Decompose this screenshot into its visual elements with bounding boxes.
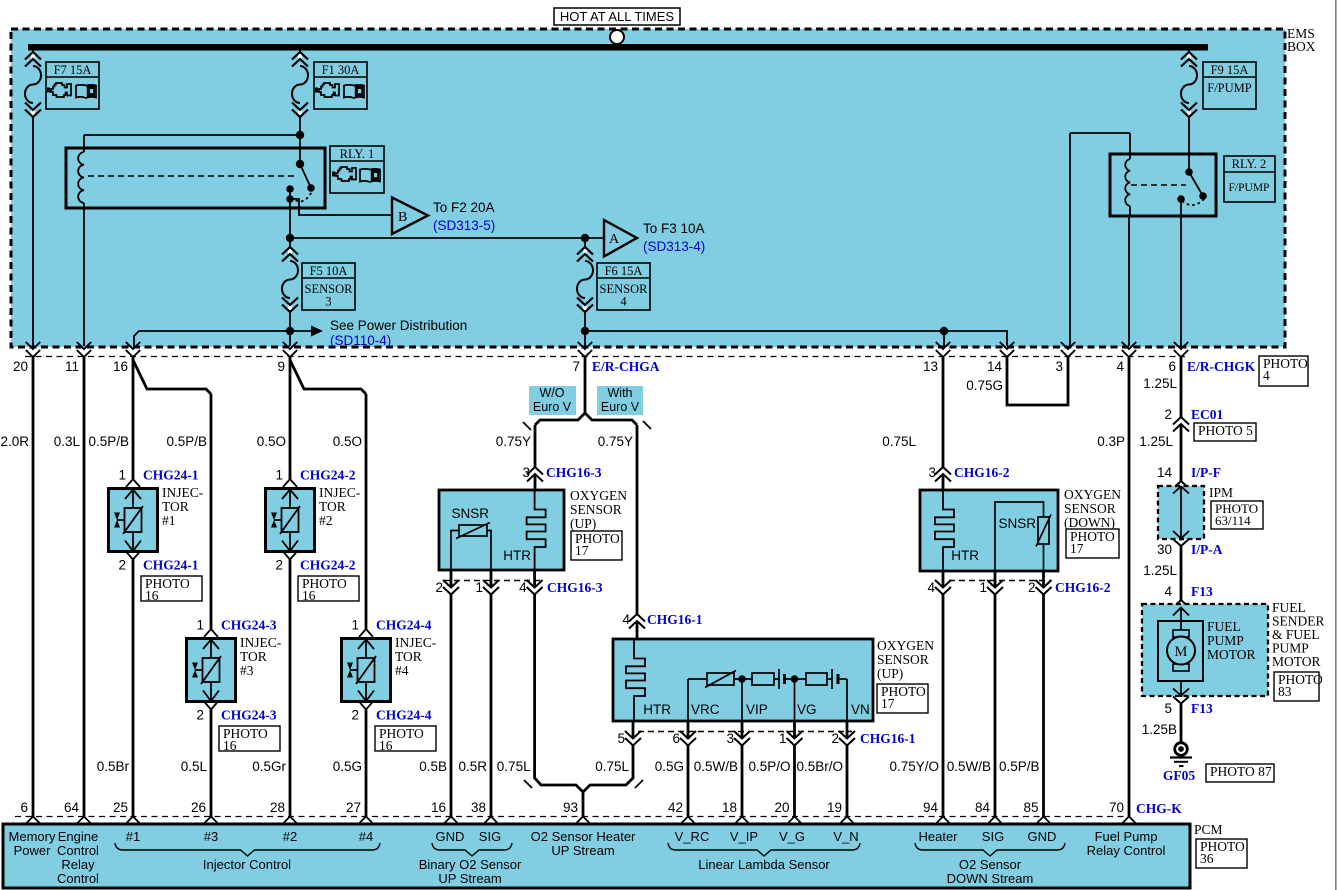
svg-text:20: 20 xyxy=(774,800,789,815)
svg-text:0.5O: 0.5O xyxy=(257,434,286,449)
svg-text:CHG24-4: CHG24-4 xyxy=(376,708,432,723)
svg-text:1.25L: 1.25L xyxy=(1139,434,1173,449)
svg-text:17: 17 xyxy=(575,543,589,558)
svg-text:16: 16 xyxy=(223,738,237,753)
svg-text:O2 Sensor: O2 Sensor xyxy=(959,857,1022,872)
svg-text:Euro V: Euro V xyxy=(601,400,640,414)
svg-text:To F2 20A: To F2 20A xyxy=(433,200,495,215)
svg-text:F/PUMP: F/PUMP xyxy=(1229,182,1270,194)
svg-text:CHG24-2: CHG24-2 xyxy=(300,468,356,483)
svg-text:INJEC-: INJEC- xyxy=(162,485,204,500)
svg-text:(SD313-4): (SD313-4) xyxy=(643,239,705,254)
svg-text:#3: #3 xyxy=(204,829,218,844)
svg-text:OXYGEN: OXYGEN xyxy=(1064,487,1121,502)
svg-text:F6 15A: F6 15A xyxy=(605,264,643,278)
svg-text:0.75Y: 0.75Y xyxy=(496,434,531,449)
svg-text:V_G: V_G xyxy=(779,829,805,844)
svg-text:0.5W/B: 0.5W/B xyxy=(947,759,991,774)
svg-text:INJEC-: INJEC- xyxy=(319,485,361,500)
svg-text:Injector Control: Injector Control xyxy=(203,857,291,872)
svg-text:M: M xyxy=(1175,644,1188,660)
svg-text:#1: #1 xyxy=(126,829,140,844)
svg-text:CHG24-3: CHG24-3 xyxy=(221,708,277,723)
svg-text:0.75G: 0.75G xyxy=(966,378,1003,393)
svg-text:PHOTO 5: PHOTO 5 xyxy=(1198,423,1253,438)
svg-text:42: 42 xyxy=(668,800,683,815)
svg-text:11: 11 xyxy=(65,359,79,374)
svg-text:V_N: V_N xyxy=(833,829,858,844)
svg-text:CHG16-2: CHG16-2 xyxy=(954,465,1010,480)
svg-text:1: 1 xyxy=(475,580,483,595)
svg-text:0.5P/O: 0.5P/O xyxy=(748,759,790,774)
svg-text:TOR: TOR xyxy=(319,499,346,514)
svg-text:19: 19 xyxy=(827,800,842,815)
svg-text:V_IP: V_IP xyxy=(730,829,758,844)
svg-text:0.5W/B: 0.5W/B xyxy=(694,759,738,774)
svg-text:(UP): (UP) xyxy=(877,666,903,681)
svg-text:3: 3 xyxy=(726,731,734,746)
svg-text:(UP): (UP) xyxy=(570,516,596,531)
svg-text:3: 3 xyxy=(1055,359,1063,374)
svg-text:F13: F13 xyxy=(1191,584,1213,599)
svg-text:16: 16 xyxy=(113,359,128,374)
svg-text:2: 2 xyxy=(831,731,839,746)
svg-text:HOT AT ALL TIMES: HOT AT ALL TIMES xyxy=(560,9,674,24)
svg-text:BOX: BOX xyxy=(1287,39,1316,54)
svg-text:3: 3 xyxy=(325,295,331,309)
svg-text:Relay Control: Relay Control xyxy=(1087,843,1166,858)
svg-text:VIP: VIP xyxy=(746,702,768,717)
svg-text:13: 13 xyxy=(923,359,938,374)
svg-text:0.75Y/O: 0.75Y/O xyxy=(889,759,939,774)
svg-text:14: 14 xyxy=(1157,465,1173,480)
svg-text:0.75Y: 0.75Y xyxy=(598,434,633,449)
svg-text:Power: Power xyxy=(14,843,52,858)
svg-text:#4: #4 xyxy=(359,829,373,844)
svg-text:#1: #1 xyxy=(162,513,176,528)
svg-text:2: 2 xyxy=(118,558,126,573)
svg-text:F1 30A: F1 30A xyxy=(322,63,360,77)
svg-text:17: 17 xyxy=(881,696,895,711)
svg-text:TOR: TOR xyxy=(240,649,267,664)
svg-text:38: 38 xyxy=(471,800,486,815)
svg-text:F7 15A: F7 15A xyxy=(54,63,92,77)
svg-text:25: 25 xyxy=(113,800,128,815)
svg-text:With: With xyxy=(608,386,633,400)
svg-text:#3: #3 xyxy=(240,663,254,678)
svg-text:CHG24-1: CHG24-1 xyxy=(143,468,199,483)
svg-text:SENSOR: SENSOR xyxy=(1064,501,1116,516)
svg-text:5: 5 xyxy=(1164,701,1172,716)
svg-text:OXYGEN: OXYGEN xyxy=(877,638,934,653)
svg-text:Binary O2 Sensor: Binary O2 Sensor xyxy=(419,857,522,872)
svg-text:0.5Br/O: 0.5Br/O xyxy=(796,759,843,774)
svg-text:0.5P/B: 0.5P/B xyxy=(166,434,207,449)
svg-text:0.5R: 0.5R xyxy=(458,759,487,774)
svg-text:1: 1 xyxy=(979,580,987,595)
svg-text:0.5P/B: 0.5P/B xyxy=(88,434,129,449)
svg-text:4: 4 xyxy=(622,612,630,627)
svg-text:0.5L: 0.5L xyxy=(181,759,208,774)
svg-text:93: 93 xyxy=(563,800,578,815)
svg-text:18: 18 xyxy=(722,800,737,815)
svg-text:SENSOR: SENSOR xyxy=(570,502,622,517)
svg-text:VG: VG xyxy=(797,702,817,717)
svg-text:1: 1 xyxy=(275,468,283,483)
svg-text:F5 10A: F5 10A xyxy=(310,264,348,278)
svg-text:V_RC: V_RC xyxy=(675,829,710,844)
svg-text:HTR: HTR xyxy=(951,548,979,563)
svg-text:#2: #2 xyxy=(319,513,333,528)
svg-text:7: 7 xyxy=(572,359,580,374)
svg-text:RLY. 2: RLY. 2 xyxy=(1232,157,1267,171)
svg-text:CHG16-3: CHG16-3 xyxy=(547,580,603,595)
svg-text:0.5G: 0.5G xyxy=(333,759,362,774)
svg-text:85: 85 xyxy=(1023,800,1038,815)
svg-text:4: 4 xyxy=(1116,359,1124,374)
svg-text:5: 5 xyxy=(617,731,625,746)
svg-text:2: 2 xyxy=(351,708,359,723)
svg-text:HTR: HTR xyxy=(503,548,531,563)
svg-text:0.3P: 0.3P xyxy=(1097,434,1125,449)
svg-text:Relay: Relay xyxy=(61,857,95,872)
svg-text:9: 9 xyxy=(277,359,285,374)
svg-text:RLY. 1: RLY. 1 xyxy=(340,147,375,161)
svg-text:(SD313-5): (SD313-5) xyxy=(433,218,495,233)
svg-text:(SD110-4): (SD110-4) xyxy=(330,333,391,348)
svg-text:INJEC-: INJEC- xyxy=(395,635,437,650)
svg-text:0.75L: 0.75L xyxy=(497,759,531,774)
svg-text:GF05: GF05 xyxy=(1163,768,1195,783)
svg-text:CHG16-3: CHG16-3 xyxy=(546,465,602,480)
svg-text:SIG: SIG xyxy=(479,829,501,844)
svg-text:CHG-K: CHG-K xyxy=(1136,801,1182,816)
svg-text:3: 3 xyxy=(522,465,530,480)
svg-text:I/P-F: I/P-F xyxy=(1191,465,1221,480)
svg-text:1.25L: 1.25L xyxy=(1143,376,1177,391)
svg-text:Fuel Pump: Fuel Pump xyxy=(1095,829,1158,844)
svg-text:64: 64 xyxy=(64,800,80,815)
svg-text:0.3L: 0.3L xyxy=(54,434,81,449)
svg-text:PHOTO 87: PHOTO 87 xyxy=(1210,764,1272,779)
svg-text:16: 16 xyxy=(431,800,446,815)
svg-text:VRC: VRC xyxy=(691,702,720,717)
svg-text:0.5B: 0.5B xyxy=(419,759,447,774)
svg-text:6: 6 xyxy=(672,731,680,746)
svg-text:26: 26 xyxy=(191,800,206,815)
svg-text:0.75L: 0.75L xyxy=(595,759,629,774)
svg-text:2: 2 xyxy=(275,558,283,573)
svg-text:W/O: W/O xyxy=(540,386,565,400)
svg-text:CHG24-1: CHG24-1 xyxy=(143,558,199,573)
svg-text:F13: F13 xyxy=(1191,701,1213,716)
svg-text:I/P-A: I/P-A xyxy=(1191,542,1223,557)
svg-text:2: 2 xyxy=(196,708,204,723)
svg-text:30: 30 xyxy=(1157,542,1172,557)
svg-text:PCM: PCM xyxy=(1194,822,1223,837)
svg-text:HTR: HTR xyxy=(643,702,671,717)
svg-text:84: 84 xyxy=(975,800,991,815)
svg-text:IPM: IPM xyxy=(1209,485,1233,500)
svg-text:Heater: Heater xyxy=(918,829,958,844)
svg-text:63/114: 63/114 xyxy=(1215,513,1251,528)
svg-text:0.75L: 0.75L xyxy=(882,434,916,449)
svg-text:FUEL: FUEL xyxy=(1207,619,1241,634)
svg-text:#2: #2 xyxy=(283,829,297,844)
svg-text:2.0R: 2.0R xyxy=(0,434,29,449)
svg-text:0.5G: 0.5G xyxy=(655,759,684,774)
svg-text:CHG16-2: CHG16-2 xyxy=(1055,580,1111,595)
svg-text:Control: Control xyxy=(57,871,99,886)
svg-text:SIG: SIG xyxy=(982,829,1004,844)
svg-text:PHOTO: PHOTO xyxy=(1263,356,1308,371)
svg-text:SNSR: SNSR xyxy=(998,516,1036,531)
svg-text:1: 1 xyxy=(196,618,204,633)
svg-text:B: B xyxy=(398,210,407,225)
svg-text:See Power Distribution: See Power Distribution xyxy=(330,318,467,333)
svg-text:CHG16-1: CHG16-1 xyxy=(647,612,703,627)
svg-text:28: 28 xyxy=(270,800,285,815)
svg-text:CHG24-3: CHG24-3 xyxy=(221,618,277,633)
svg-text:16: 16 xyxy=(302,588,316,603)
svg-text:Control: Control xyxy=(57,843,99,858)
svg-text:0.5Gr: 0.5Gr xyxy=(252,759,286,774)
svg-text:E/R-CHGA: E/R-CHGA xyxy=(592,359,660,374)
svg-text:#4: #4 xyxy=(395,663,409,678)
svg-text:27: 27 xyxy=(346,800,361,815)
svg-text:INJEC-: INJEC- xyxy=(240,635,282,650)
svg-text:0.5P/B: 0.5P/B xyxy=(999,759,1040,774)
svg-text:1: 1 xyxy=(779,731,787,746)
svg-text:CHG24-4: CHG24-4 xyxy=(376,618,432,633)
svg-text:83: 83 xyxy=(1278,684,1292,699)
svg-text:SENSOR: SENSOR xyxy=(877,652,929,667)
svg-text:16: 16 xyxy=(145,588,159,603)
svg-text:3: 3 xyxy=(928,465,936,480)
svg-text:1: 1 xyxy=(118,468,126,483)
svg-text:CHG16-1: CHG16-1 xyxy=(860,731,916,746)
svg-text:0.5O: 0.5O xyxy=(333,434,362,449)
svg-text:Linear Lambda Sensor: Linear Lambda Sensor xyxy=(698,857,830,872)
svg-text:UP Stream: UP Stream xyxy=(551,843,614,858)
svg-text:4: 4 xyxy=(1263,368,1270,383)
svg-text:(DOWN): (DOWN) xyxy=(1064,515,1115,530)
svg-text:6: 6 xyxy=(20,800,28,815)
svg-text:94: 94 xyxy=(923,800,939,815)
svg-text:DOWN Stream: DOWN Stream xyxy=(947,871,1034,886)
svg-text:Engine: Engine xyxy=(58,829,98,844)
svg-text:Euro V: Euro V xyxy=(533,400,572,414)
svg-text:MOTOR: MOTOR xyxy=(1207,647,1256,662)
svg-text:PUMP: PUMP xyxy=(1207,633,1244,648)
svg-text:0.5Br: 0.5Br xyxy=(97,759,130,774)
svg-text:4: 4 xyxy=(927,580,935,595)
svg-text:70: 70 xyxy=(1109,800,1124,815)
svg-text:14: 14 xyxy=(987,359,1003,374)
svg-text:SNSR: SNSR xyxy=(451,506,489,521)
svg-text:16: 16 xyxy=(379,738,393,753)
svg-text:O2 Sensor Heater: O2 Sensor Heater xyxy=(531,829,636,844)
svg-text:F/PUMP: F/PUMP xyxy=(1207,81,1252,95)
svg-text:Memory: Memory xyxy=(9,829,56,844)
svg-text:EC01: EC01 xyxy=(1191,407,1224,422)
svg-text:GND: GND xyxy=(1028,829,1057,844)
svg-text:4: 4 xyxy=(620,295,627,309)
svg-text:A: A xyxy=(609,232,620,247)
svg-text:17: 17 xyxy=(1070,541,1084,556)
svg-text:2: 2 xyxy=(1028,580,1036,595)
svg-text:4: 4 xyxy=(519,580,527,595)
svg-text:1.25B: 1.25B xyxy=(1142,722,1177,737)
svg-text:MOTOR: MOTOR xyxy=(1272,654,1321,669)
svg-text:TOR: TOR xyxy=(162,499,189,514)
svg-text:6: 6 xyxy=(1168,359,1176,374)
svg-text:E/R-CHGK: E/R-CHGK xyxy=(1187,359,1256,374)
svg-text:2: 2 xyxy=(435,580,443,595)
svg-text:TOR: TOR xyxy=(395,649,422,664)
svg-text:UP Stream: UP Stream xyxy=(438,871,501,886)
svg-text:OXYGEN: OXYGEN xyxy=(570,488,627,503)
svg-text:36: 36 xyxy=(1200,851,1214,866)
svg-text:20: 20 xyxy=(13,359,28,374)
svg-text:CHG24-2: CHG24-2 xyxy=(300,558,356,573)
svg-text:F9 15A: F9 15A xyxy=(1211,63,1249,77)
svg-text:1: 1 xyxy=(351,618,359,633)
svg-text:GND: GND xyxy=(436,829,465,844)
svg-text:1.25L: 1.25L xyxy=(1143,563,1177,578)
svg-text:2: 2 xyxy=(1164,407,1172,422)
svg-text:4: 4 xyxy=(1164,584,1172,599)
svg-text:To F3 10A: To F3 10A xyxy=(643,221,705,236)
svg-text:VN: VN xyxy=(851,702,870,717)
